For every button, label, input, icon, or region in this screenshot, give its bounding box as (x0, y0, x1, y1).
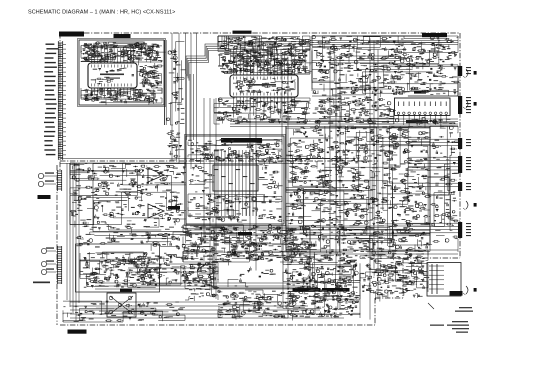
svg-text:SCHEMATIC DIAGRAM – 1 (MAIN :: SCHEMATIC DIAGRAM – 1 (MAIN : HR, HC) <C… (28, 10, 175, 16)
